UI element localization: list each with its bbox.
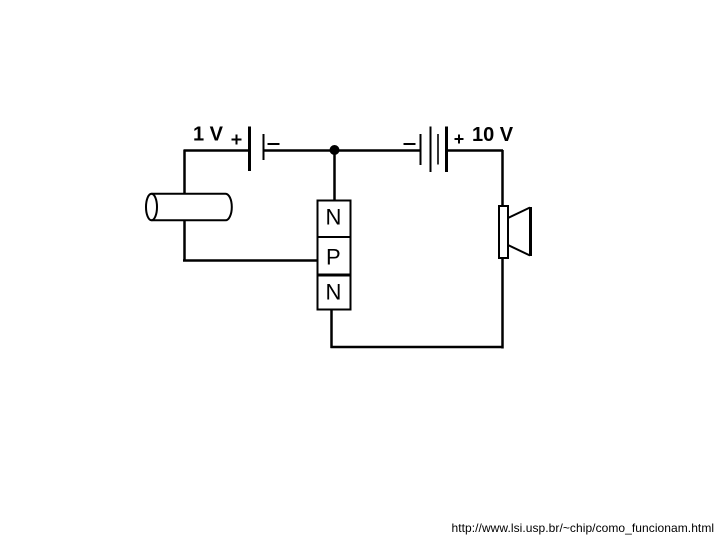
svg-text:http://www.lsi.usp.br/~chip/co: http://www.lsi.usp.br/~chip/como_funcion…	[452, 521, 715, 535]
svg-text:N: N	[326, 205, 342, 230]
svg-text:N: N	[326, 280, 342, 305]
svg-text:10 V: 10 V	[472, 124, 514, 146]
svg-text:P: P	[326, 245, 341, 270]
svg-text:1 V: 1 V	[193, 124, 224, 146]
